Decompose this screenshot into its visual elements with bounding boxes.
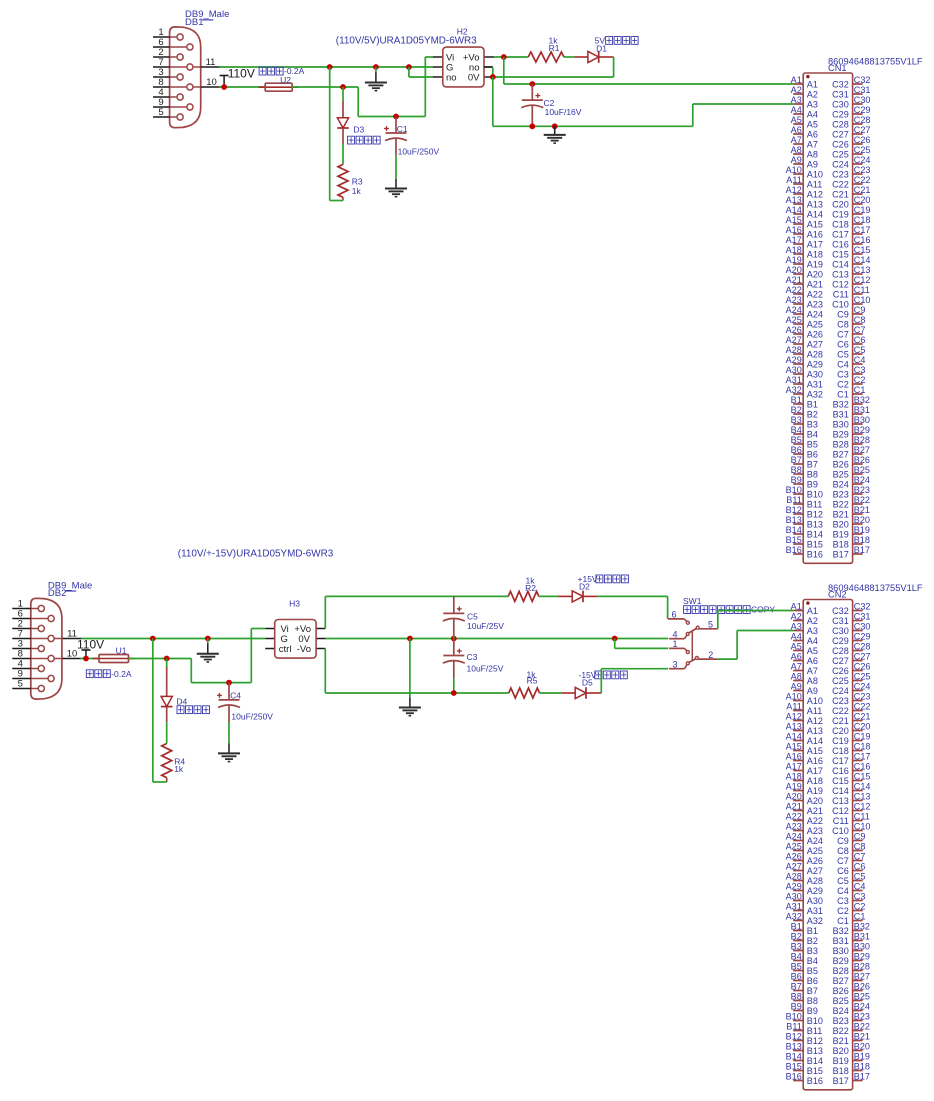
- svg-text:B2: B2: [807, 409, 818, 419]
- fuse U1: [93, 655, 136, 663]
- svg-text:C2: C2: [837, 379, 849, 389]
- switch SW1 pin5 lead: [699, 628, 718, 630]
- svg-text:B19: B19: [833, 1056, 849, 1066]
- label R2 value 1k: [526, 576, 536, 586]
- svg-text:B11: B11: [786, 1022, 802, 1032]
- svg-text:B1: B1: [807, 399, 818, 409]
- svg-text:A23: A23: [807, 826, 823, 836]
- resistor R1: [528, 52, 564, 62]
- svg-text:C17: C17: [854, 752, 871, 762]
- capacitor C2: [521, 84, 543, 124]
- wire 5V to CN1 A1: [504, 83, 793, 85]
- svg-text:C20: C20: [854, 722, 871, 732]
- diode D2: [572, 591, 583, 603]
- svg-text:B22: B22: [833, 499, 849, 509]
- svg-text:R3: R3: [352, 176, 363, 186]
- svg-text:B21: B21: [833, 1036, 849, 1046]
- wire D2 to SW pin6: [583, 596, 668, 619]
- svg-text:C29: C29: [854, 105, 871, 115]
- svg-text:C6: C6: [837, 339, 849, 349]
- svg-text:B9: B9: [807, 1006, 818, 1016]
- ground stem C4: [228, 743, 230, 753]
- converter H2 box: [443, 47, 484, 87]
- svg-text:B16: B16: [807, 1076, 823, 1086]
- CN2 pin1 marker: [806, 601, 809, 604]
- svg-text:B14: B14: [807, 1056, 823, 1066]
- svg-text:10uF/16V: 10uF/16V: [545, 107, 582, 117]
- svg-text:B28: B28: [854, 435, 870, 445]
- svg-text:B4: B4: [807, 429, 818, 439]
- svg-text:B27: B27: [833, 449, 849, 459]
- svg-text:D1: D1: [596, 43, 607, 53]
- H2 pin stubs right: [484, 57, 494, 77]
- switch SW1 pin4 lead: [669, 635, 687, 639]
- svg-text:B14: B14: [807, 529, 823, 539]
- svg-text:6: 6: [671, 610, 676, 620]
- svg-text:R5: R5: [527, 676, 538, 686]
- svg-text:C14: C14: [832, 259, 849, 269]
- svg-text:4: 4: [672, 629, 677, 639]
- wire +Vo riser (H3): [325, 596, 508, 628]
- svg-text:C31: C31: [832, 616, 849, 626]
- ground stem rail: [554, 126, 556, 134]
- wire 0V rail (bottom): [326, 638, 668, 640]
- junction 0V: [490, 74, 496, 80]
- svg-text:C25: C25: [854, 672, 871, 682]
- svg-text:B5: B5: [807, 966, 818, 976]
- svg-text:A6: A6: [791, 652, 802, 662]
- label SW1 pin 6: [671, 610, 676, 620]
- fuse U2: [259, 83, 299, 91]
- svg-text:A28: A28: [786, 345, 802, 355]
- switch SW1 pin6 contact: [686, 621, 689, 624]
- label H2: [457, 27, 468, 37]
- svg-text:B31: B31: [854, 405, 870, 415]
- capacitor C5: [443, 596, 465, 636]
- junction D3 branch: [340, 84, 346, 90]
- wire pin10 lead black (DB2): [63, 658, 81, 660]
- svg-text:B11: B11: [807, 1026, 823, 1036]
- switch SW1 pole1 blade: [689, 628, 697, 633]
- label CN1 part number: [828, 56, 923, 66]
- label -15V供电指示 (D5): [579, 670, 628, 680]
- junction C3 bottom: [451, 690, 457, 696]
- svg-text:B32: B32: [854, 922, 870, 932]
- junction pin10 port: [221, 84, 227, 90]
- svg-text:A20: A20: [807, 269, 823, 279]
- svg-text:B29: B29: [833, 956, 849, 966]
- svg-text:A29: A29: [786, 882, 802, 892]
- switch SW1 pole2 blade: [689, 659, 696, 663]
- svg-text:B32: B32: [833, 926, 849, 936]
- junction D4 branch: [164, 656, 170, 662]
- svg-text:B27: B27: [854, 972, 870, 982]
- svg-text:B18: B18: [854, 535, 870, 545]
- svg-text:B24: B24: [833, 479, 849, 489]
- wire +Vo: [494, 56, 528, 58]
- svg-text:C16: C16: [832, 239, 849, 249]
- wire pin11 lead black: [201, 66, 220, 68]
- svg-text:B27: B27: [854, 445, 870, 455]
- junction rail gnd: [552, 123, 558, 129]
- label R1 value 1k: [549, 35, 559, 45]
- svg-text:B26: B26: [833, 986, 849, 996]
- connector CN1 left pin stubs: [793, 84, 803, 554]
- svg-text:ctrl: ctrl: [279, 644, 292, 655]
- label 正接指示 (D4): [177, 706, 210, 714]
- svg-text:B7: B7: [807, 986, 818, 996]
- svg-text:A9: A9: [791, 155, 802, 165]
- label SW1 pin 3: [672, 659, 677, 669]
- CN1 internal right pin names: [832, 79, 849, 559]
- svg-text:B6: B6: [791, 972, 802, 982]
- wire R1 to D1: [564, 56, 588, 58]
- svg-text:D4: D4: [176, 696, 187, 706]
- svg-text:A19: A19: [807, 259, 823, 269]
- svg-text:B6: B6: [807, 449, 818, 459]
- svg-text:-Vo: -Vo: [297, 644, 311, 655]
- svg-text:C10: C10: [832, 826, 849, 836]
- label D5: [582, 678, 593, 688]
- svg-text:B30: B30: [854, 415, 870, 425]
- svg-text:A6: A6: [791, 125, 802, 135]
- svg-text:C23: C23: [854, 692, 871, 702]
- svg-text:C28: C28: [832, 119, 849, 129]
- svg-text:B8: B8: [807, 469, 818, 479]
- svg-text:C1: C1: [397, 124, 408, 134]
- svg-text:B12: B12: [807, 1036, 823, 1046]
- svg-text:C18: C18: [832, 219, 849, 229]
- wire drop to no pin: [409, 67, 433, 77]
- label pin 11 (DB2): [67, 629, 77, 640]
- svg-text:C12: C12: [832, 806, 849, 816]
- svg-text:B25: B25: [854, 465, 870, 475]
- svg-text:B10: B10: [807, 489, 823, 499]
- svg-text:C27: C27: [854, 652, 871, 662]
- svg-text:B4: B4: [791, 952, 802, 962]
- svg-text:C15: C15: [832, 776, 849, 786]
- label R5 value 1k: [527, 670, 537, 680]
- svg-text:A26: A26: [786, 325, 802, 335]
- diode D1: [588, 51, 599, 63]
- label CN1: [828, 63, 847, 73]
- switch SW1 pin1 contact: [686, 651, 689, 654]
- wire D1 return: [493, 57, 614, 77]
- svg-text:B21: B21: [833, 509, 849, 519]
- svg-text:B20: B20: [854, 515, 870, 525]
- svg-text:C16: C16: [854, 235, 871, 245]
- svg-text:11: 11: [206, 57, 216, 68]
- svg-text:A21: A21: [807, 806, 823, 816]
- svg-text:110V: 110V: [77, 638, 104, 652]
- svg-text:C19: C19: [832, 209, 849, 219]
- label C3: [467, 652, 478, 662]
- svg-text:C16: C16: [854, 762, 871, 772]
- label C1 value 10uF/250V: [398, 147, 440, 157]
- svg-text:C7: C7: [854, 325, 866, 335]
- svg-text:U2: U2: [280, 75, 291, 85]
- svg-text:B12: B12: [786, 1032, 802, 1042]
- svg-text:B18: B18: [854, 1062, 870, 1072]
- svg-text:A20: A20: [786, 265, 802, 275]
- svg-text:DB2: DB2: [48, 588, 66, 599]
- wire R3 bottom: [330, 197, 343, 200]
- svg-text:B9: B9: [791, 475, 802, 485]
- junction pin1 branch: [612, 636, 618, 642]
- junction gnd branch (pin11 net): [205, 636, 211, 642]
- svg-text:B9: B9: [807, 479, 818, 489]
- svg-text:A22: A22: [786, 812, 802, 822]
- junction C1 top: [393, 114, 399, 120]
- CN1 pin1 marker: [806, 75, 809, 78]
- svg-text:C9: C9: [854, 305, 866, 315]
- svg-text:A1: A1: [807, 79, 818, 89]
- svg-text:C15: C15: [854, 245, 871, 255]
- diode D3: [337, 118, 349, 128]
- svg-text:C13: C13: [832, 269, 849, 279]
- svg-text:5: 5: [158, 107, 163, 118]
- svg-text:10: 10: [206, 77, 217, 88]
- junction 0V gnd: [407, 636, 413, 642]
- svg-text:A21: A21: [786, 275, 802, 285]
- svg-text:A23: A23: [807, 299, 823, 309]
- svg-text:B26: B26: [854, 982, 870, 992]
- svg-text:C26: C26: [854, 135, 871, 145]
- svg-text:C16: C16: [832, 766, 849, 776]
- svg-text:B32: B32: [833, 399, 849, 409]
- svg-text:C29: C29: [832, 636, 849, 646]
- label CN2: [828, 589, 847, 599]
- label C2: [544, 98, 555, 108]
- svg-text:A10: A10: [786, 165, 802, 175]
- wire 0V gnd drop: [409, 639, 411, 698]
- resistor R5: [509, 688, 540, 698]
- svg-text:C11: C11: [833, 816, 849, 826]
- svg-text:A17: A17: [786, 235, 802, 245]
- ground (C1): [385, 189, 407, 197]
- svg-text:A14: A14: [786, 732, 802, 742]
- svg-text:A5: A5: [807, 119, 818, 129]
- svg-text:A7: A7: [807, 139, 818, 149]
- wire D3 top: [342, 87, 344, 103]
- svg-text:A18: A18: [807, 776, 823, 786]
- ground stem (0V): [409, 697, 411, 707]
- svg-text:C28: C28: [854, 642, 871, 652]
- ground (input bottom): [197, 654, 219, 662]
- svg-text:C17: C17: [854, 225, 871, 235]
- svg-text:C4: C4: [837, 886, 849, 896]
- svg-text:C25: C25: [832, 149, 849, 159]
- svg-text:11: 11: [67, 629, 77, 640]
- svg-text:A19: A19: [786, 782, 802, 792]
- svg-text:B26: B26: [833, 459, 849, 469]
- svg-text:A26: A26: [807, 329, 823, 339]
- svg-text:B22: B22: [833, 1026, 849, 1036]
- svg-text:C1: C1: [837, 389, 849, 399]
- svg-text:110V: 110V: [228, 67, 255, 81]
- svg-text:C32: C32: [832, 79, 849, 89]
- svg-text:A8: A8: [807, 149, 818, 159]
- svg-text:A6: A6: [807, 129, 818, 139]
- label R4 value 1k: [174, 764, 184, 774]
- svg-text:B15: B15: [807, 1066, 823, 1076]
- svg-text:C31: C31: [832, 89, 849, 99]
- svg-text:C22: C22: [832, 179, 849, 189]
- svg-text:CN1: CN1: [828, 63, 847, 73]
- svg-text:C20: C20: [854, 195, 871, 205]
- svg-text:A27: A27: [786, 335, 802, 345]
- svg-text:B31: B31: [854, 932, 870, 942]
- junction R3 return: [327, 64, 333, 70]
- wire -15V rail: [325, 692, 508, 694]
- svg-text:B31: B31: [833, 936, 849, 946]
- svg-text:A26: A26: [807, 856, 823, 866]
- switch SW1 pin5 contact: [696, 626, 699, 629]
- svg-text:10: 10: [67, 649, 78, 660]
- svg-text:B16: B16: [807, 549, 823, 559]
- svg-text:C24: C24: [854, 682, 871, 692]
- H3 pin stubs left: [265, 629, 275, 649]
- svg-text:B31: B31: [833, 409, 849, 419]
- svg-text:A14: A14: [807, 209, 823, 219]
- wire no-0V link: [484, 67, 493, 77]
- CN1 external right pin labels: [854, 75, 871, 555]
- svg-text:A1: A1: [791, 75, 802, 85]
- svg-text:C2: C2: [854, 902, 866, 912]
- svg-text:A24: A24: [786, 832, 802, 842]
- ground (C4): [218, 753, 240, 761]
- junction no-pin branch: [406, 64, 412, 70]
- svg-text:B24: B24: [854, 1002, 870, 1012]
- svg-text:A3: A3: [807, 99, 818, 109]
- svg-text:1k: 1k: [174, 764, 184, 774]
- svg-text:B19: B19: [854, 525, 870, 535]
- svg-text:B3: B3: [791, 942, 802, 952]
- svg-text:C25: C25: [832, 676, 849, 686]
- svg-text:SW1: SW1: [683, 596, 702, 606]
- wire 0V drop: [492, 77, 494, 126]
- svg-text:C24: C24: [832, 686, 849, 696]
- svg-text:A10: A10: [807, 169, 823, 179]
- svg-text:A15: A15: [807, 746, 823, 756]
- svg-text:B20: B20: [833, 519, 849, 529]
- svg-text:B5: B5: [791, 435, 802, 445]
- svg-text:A30: A30: [786, 365, 802, 375]
- svg-text:C22: C22: [854, 175, 871, 185]
- svg-text:A32: A32: [807, 916, 823, 926]
- svg-text:C8: C8: [837, 319, 849, 329]
- svg-text:C14: C14: [854, 255, 871, 265]
- svg-text:C30: C30: [854, 95, 871, 105]
- converter H3 box: [275, 620, 316, 659]
- wire D3 to R3: [342, 128, 344, 164]
- svg-text:B7: B7: [791, 982, 802, 992]
- svg-text:C1: C1: [837, 916, 849, 926]
- svg-text:C29: C29: [854, 632, 871, 642]
- svg-text:A12: A12: [786, 185, 802, 195]
- svg-text:DB1: DB1: [185, 17, 203, 28]
- svg-text:A22: A22: [807, 289, 823, 299]
- svg-text:C22: C22: [854, 702, 871, 712]
- svg-text:A25: A25: [807, 319, 823, 329]
- svg-text:A8: A8: [807, 676, 818, 686]
- svg-text:A31: A31: [786, 375, 802, 385]
- svg-text:(110V/+-15V)URA1D05YMD-6WR3: (110V/+-15V)URA1D05YMD-6WR3: [178, 549, 334, 560]
- svg-text:C25: C25: [854, 145, 871, 155]
- svg-text:A16: A16: [786, 225, 802, 235]
- svg-text:A30: A30: [807, 896, 823, 906]
- svg-text:C14: C14: [832, 786, 849, 796]
- svg-text:C18: C18: [854, 215, 871, 225]
- svg-text:C20: C20: [832, 199, 849, 209]
- svg-text:A21: A21: [786, 802, 802, 812]
- label H2 part (110V/5V)URA1D05YMD-6WR3: [336, 36, 477, 47]
- svg-text:B14: B14: [786, 1052, 802, 1062]
- svg-text:A12: A12: [807, 716, 823, 726]
- switch SW1 pin4 contact: [686, 632, 689, 635]
- svg-text:A12: A12: [786, 712, 802, 722]
- svg-text:C3: C3: [837, 896, 849, 906]
- svg-text:C13: C13: [832, 796, 849, 806]
- svg-text:A28: A28: [807, 349, 823, 359]
- svg-text:A24: A24: [786, 305, 802, 315]
- svg-text:A11: A11: [807, 179, 823, 189]
- wire R3 return riser: [329, 67, 331, 201]
- svg-text:A4: A4: [807, 109, 818, 119]
- svg-text:B13: B13: [786, 1042, 802, 1052]
- svg-text:C32: C32: [854, 75, 871, 85]
- svg-text:C6: C6: [854, 862, 866, 872]
- svg-text:C14: C14: [854, 782, 871, 792]
- svg-text:C3: C3: [837, 369, 849, 379]
- svg-text:B13: B13: [786, 515, 802, 525]
- svg-text:A7: A7: [807, 666, 818, 676]
- svg-text:B29: B29: [854, 952, 870, 962]
- svg-text:A7: A7: [791, 135, 802, 145]
- svg-text:A26: A26: [786, 852, 802, 862]
- svg-text:A31: A31: [807, 906, 823, 916]
- svg-text:A13: A13: [807, 199, 823, 209]
- svg-text:B11: B11: [786, 495, 802, 505]
- wire R2 to D2: [539, 595, 572, 597]
- connector DB2 DB9_Male: [12, 580, 92, 699]
- svg-text:A23: A23: [786, 295, 802, 305]
- svg-text:C10: C10: [854, 295, 871, 305]
- wire C1 bottom: [395, 156, 397, 179]
- connector DB1 DB9_Male: [153, 9, 229, 128]
- svg-text:A5: A5: [791, 642, 802, 652]
- wire fuse to D4 node: [129, 658, 192, 660]
- svg-text:C13: C13: [854, 265, 871, 275]
- svg-text:B15: B15: [807, 539, 823, 549]
- svg-text:U1: U1: [116, 646, 127, 656]
- svg-text:B25: B25: [854, 992, 870, 1002]
- power port 110V (bottom): [77, 638, 104, 659]
- wire pin10 lead black: [201, 86, 220, 88]
- CN2 external right pin labels: [854, 602, 871, 1082]
- resistor R3: [338, 164, 348, 197]
- svg-text:C5: C5: [837, 876, 849, 886]
- svg-text:C21: C21: [832, 716, 849, 726]
- svg-text:C30: C30: [854, 622, 871, 632]
- wire C4 bottom: [228, 722, 230, 743]
- svg-text:C11: C11: [833, 289, 849, 299]
- svg-text:A11: A11: [786, 702, 802, 712]
- svg-text:0V: 0V: [468, 73, 480, 84]
- svg-text:A31: A31: [807, 379, 823, 389]
- svg-text:B12: B12: [807, 509, 823, 519]
- junction C2 top: [529, 81, 535, 87]
